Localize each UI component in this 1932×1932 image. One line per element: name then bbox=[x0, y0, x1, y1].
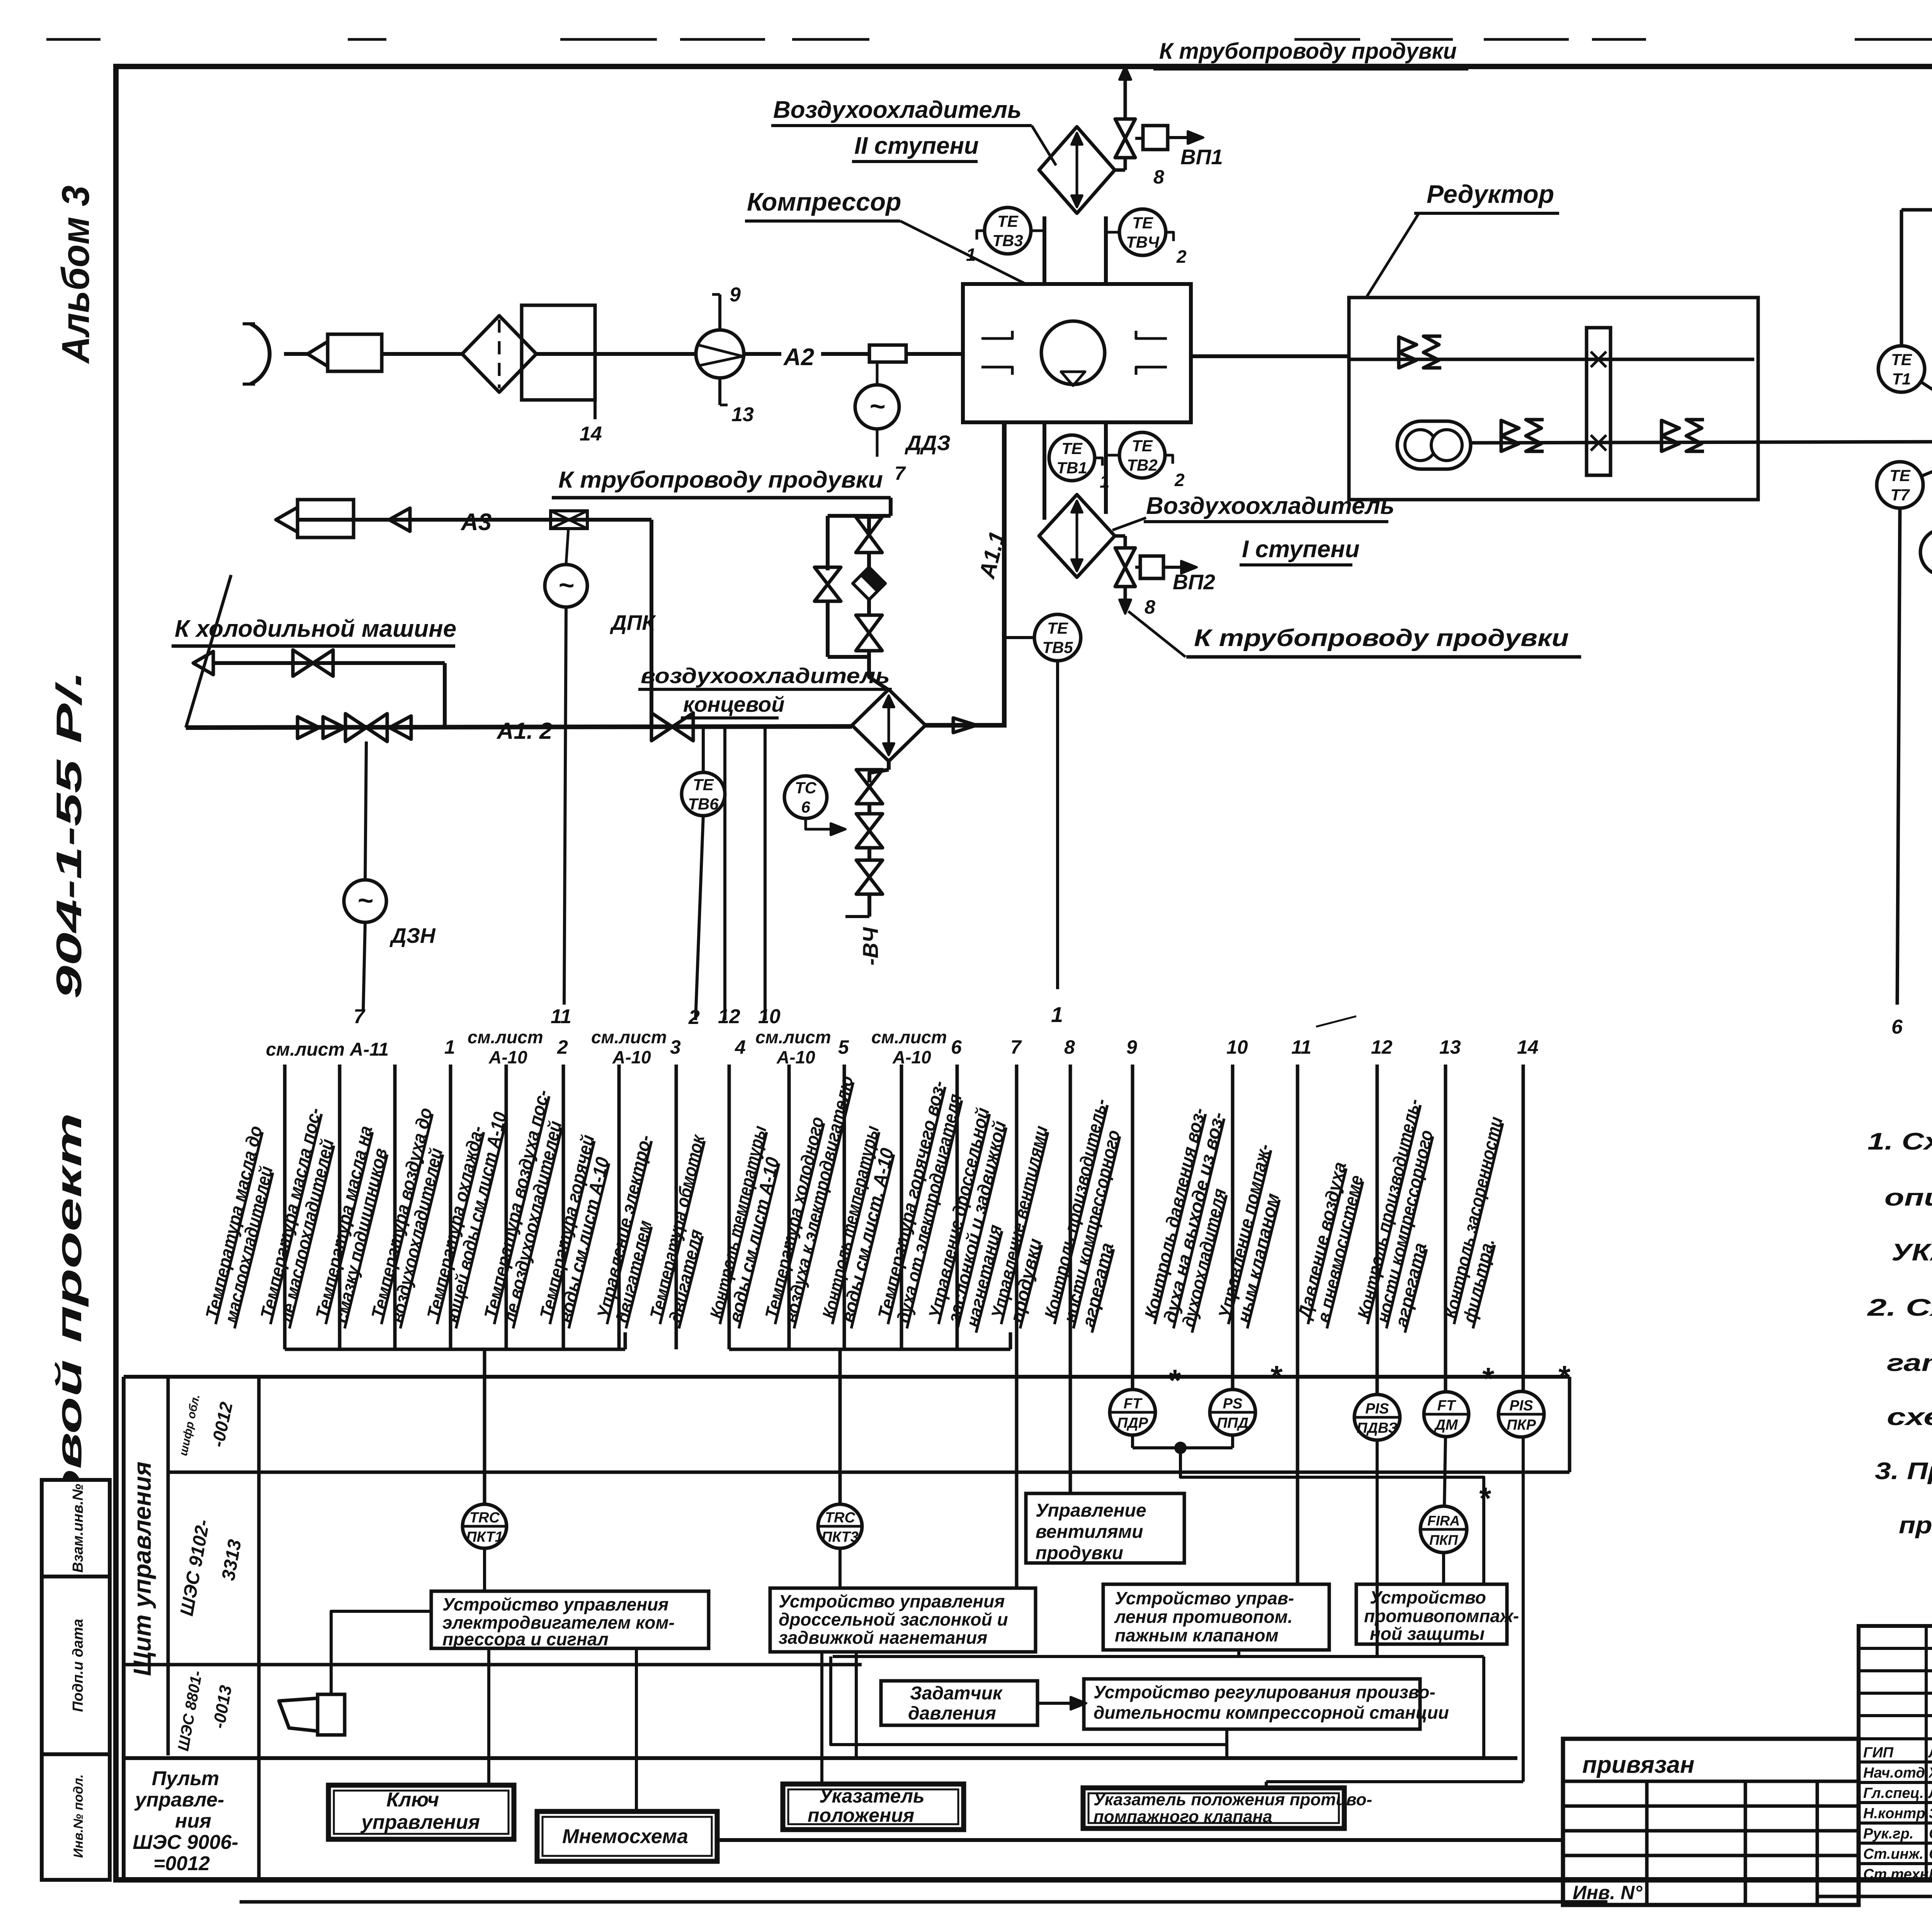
controller FIRA ПКП bbox=[1420, 1506, 1467, 1553]
svg-text:ПДР: ПДР bbox=[1117, 1415, 1148, 1431]
svg-text:13: 13 bbox=[731, 403, 754, 426]
svg-text:Гл.спец.: Гл.спец. bbox=[1863, 1785, 1924, 1801]
svg-text:ТЕ: ТЕ bbox=[1132, 214, 1154, 232]
signal line t2 bbox=[338, 1065, 342, 1349]
stub box3 to bus bbox=[1237, 1650, 1240, 1656]
svg-text:ДЗН: ДЗН bbox=[389, 923, 436, 947]
svg-text:5: 5 bbox=[838, 1036, 849, 1058]
signal line t3 bbox=[393, 1065, 397, 1349]
wire suction to funnel bbox=[284, 352, 308, 356]
svg-text:11: 11 bbox=[551, 1005, 571, 1028]
svg-text:см.лист: см.лист bbox=[591, 1027, 667, 1047]
svg-text:Компрессор: Компрессор bbox=[747, 187, 901, 216]
svg-text:ДМ: ДМ bbox=[1434, 1417, 1458, 1433]
svg-text:прессора и сигнал: прессора и сигнал bbox=[442, 1629, 609, 1649]
motor sensor bus top bbox=[1901, 208, 1932, 212]
svg-text:Устройство управления: Устройство управления bbox=[779, 1591, 1005, 1611]
svg-text:13: 13 bbox=[1439, 1036, 1461, 1058]
wire junction to protection box bbox=[1180, 1448, 1484, 1584]
svg-text:*: * bbox=[1478, 1481, 1492, 1515]
svg-text:1: 1 bbox=[1051, 1002, 1063, 1027]
filter small diamond bbox=[853, 567, 885, 600]
branch left pipe bbox=[826, 516, 830, 570]
svg-text:Альбом 3: Альбом 3 bbox=[54, 185, 97, 364]
open arrow on A1.2 bbox=[389, 716, 411, 739]
stub below ДДЗ bbox=[876, 429, 879, 457]
wire ПКТ3 to box2 bbox=[838, 1548, 842, 1588]
arrow from ВП2 box bbox=[1163, 566, 1194, 569]
box Указатель положения bbox=[783, 1784, 964, 1830]
svg-text:Христофоров: Христофоров bbox=[1928, 1765, 1932, 1781]
filter box 14 inlet bbox=[328, 334, 382, 371]
leader to cooler I bbox=[1112, 518, 1146, 530]
collector group 2 bbox=[729, 1348, 1010, 1351]
svg-text:10: 10 bbox=[758, 1005, 781, 1028]
svg-text:Т7: Т7 bbox=[1890, 486, 1910, 504]
svg-text:Взам.инв.№: Взам.инв.№ bbox=[70, 1484, 86, 1573]
duct compressor to cooler II bbox=[1043, 216, 1046, 284]
sensor TE ТВ6 bbox=[682, 772, 725, 816]
box Мнемосхема bbox=[537, 1811, 717, 1861]
valve drop 2 bbox=[856, 814, 883, 831]
blowdown branch top connector bbox=[828, 514, 891, 518]
wire line 10 drop bbox=[764, 726, 767, 1020]
attach table привязан bbox=[1563, 1739, 1859, 1905]
svg-text:концевой: концевой bbox=[683, 692, 784, 716]
svg-text:давления: давления bbox=[908, 1703, 996, 1724]
wire A1.1 to ТВ5 bbox=[1004, 636, 1034, 639]
table left edge bbox=[122, 1377, 126, 1880]
upper branch pipe bbox=[213, 661, 445, 665]
svg-text:8: 8 bbox=[1064, 1036, 1075, 1058]
svg-text:дроссельной заслонкой и: дроссельной заслонкой и bbox=[779, 1609, 1008, 1629]
air cleaner box bbox=[522, 305, 595, 400]
svg-text:пажным клапаном: пажным клапаном bbox=[1115, 1625, 1279, 1645]
oil pump oval bbox=[1397, 421, 1471, 469]
check valve pair on A1.2 bbox=[298, 717, 319, 738]
svg-text:Леонов: Леонов bbox=[1928, 1745, 1932, 1761]
valve drop 3 bbox=[856, 860, 883, 877]
valve drop 1 bbox=[856, 770, 883, 787]
gear pair upper bbox=[1399, 337, 1417, 352]
svg-text:А3: А3 bbox=[460, 509, 492, 536]
svg-text:см.лист: см.лист bbox=[755, 1027, 831, 1047]
svg-text:Рук.гр.: Рук.гр. bbox=[1863, 1826, 1913, 1842]
svg-text:Ст.инж.: Ст.инж. bbox=[1863, 1846, 1923, 1862]
svg-text:1: 1 bbox=[966, 245, 976, 265]
svg-text:ПКП: ПКП bbox=[1429, 1532, 1458, 1548]
table col line 435 bbox=[167, 1377, 170, 1755]
svg-text:Устройство управ-: Устройство управ- bbox=[1115, 1588, 1294, 1608]
wire ТВ6 drop line 2 bbox=[696, 816, 703, 1020]
reducer lower shaft bbox=[1471, 442, 1932, 443]
flow device 9/13 bbox=[696, 330, 744, 378]
svg-text:-ВЧ: -ВЧ bbox=[858, 927, 883, 966]
transmitter PIS ПКР bbox=[1498, 1391, 1544, 1437]
end air cooler diamond bbox=[852, 689, 925, 761]
svg-text:12: 12 bbox=[1371, 1036, 1393, 1058]
reducer box bbox=[1349, 298, 1758, 500]
wire motor to TE Т7 bbox=[1922, 453, 1932, 476]
svg-text:2: 2 bbox=[1176, 247, 1187, 267]
valve ВП1 riser bbox=[1115, 168, 1125, 172]
svg-text:противопомпаж-: противопомпаж- bbox=[1364, 1606, 1519, 1626]
air cooler I stage diamond bbox=[1039, 495, 1115, 577]
svg-text:Скляров: Скляров bbox=[1929, 1846, 1932, 1862]
svg-text:Инв. N°: Инв. N° bbox=[1573, 1882, 1643, 1903]
svg-text:ПДВЗ: ПДВЗ bbox=[1357, 1420, 1398, 1436]
svg-text:10: 10 bbox=[1226, 1036, 1248, 1058]
svg-text:Воздухоохладитель: Воздухоохладитель bbox=[773, 97, 1022, 123]
wire flow device to A2 bbox=[744, 352, 781, 356]
svg-text:FIRА: FIRА bbox=[1427, 1513, 1460, 1529]
transmitter FT ПДР bbox=[1110, 1389, 1155, 1435]
line to label 14 bbox=[594, 400, 597, 419]
svg-text:ТЕ: ТЕ bbox=[693, 776, 714, 794]
svg-text:Пульт: Пульт bbox=[152, 1767, 219, 1790]
collector group 1 bbox=[285, 1348, 625, 1351]
signal line t10 bbox=[787, 1065, 791, 1349]
svg-text:7: 7 bbox=[354, 1005, 366, 1028]
svg-text:ППД: ППД bbox=[1217, 1415, 1248, 1431]
svg-text:8: 8 bbox=[1145, 596, 1155, 618]
svg-text:К трубопроводу продувки: К трубопроводу продувки bbox=[558, 467, 883, 493]
svg-text:Лавинский: Лавинский bbox=[1928, 1785, 1932, 1801]
end cooler bottom drop bbox=[887, 761, 891, 770]
svg-text:Седов: Седов bbox=[1929, 1826, 1932, 1842]
svg-text:1: 1 bbox=[444, 1036, 455, 1058]
tap to ДПК bbox=[566, 529, 568, 564]
signal line t1 bbox=[283, 1065, 287, 1349]
transmitter PIS ПДВЗ bbox=[1354, 1395, 1400, 1440]
svg-text:ШЭС 9006-: ШЭС 9006- bbox=[133, 1831, 238, 1854]
svg-text:ПКР: ПКР bbox=[1507, 1417, 1536, 1433]
band right edge bbox=[1568, 1377, 1571, 1472]
svg-text:9: 9 bbox=[730, 284, 741, 306]
svg-text:задвижкой нагнетания: задвижкой нагнетания bbox=[779, 1628, 987, 1648]
svg-text:~: ~ bbox=[558, 570, 574, 600]
wire ПКТ1 to box1 bbox=[483, 1548, 486, 1591]
wire FIRA to box4 bbox=[1442, 1553, 1445, 1584]
bottom border smudge line bbox=[240, 1900, 1607, 1904]
svg-text:ния: ния bbox=[175, 1810, 211, 1832]
svg-text:ной защиты: ной защиты bbox=[1370, 1624, 1485, 1644]
leader to blowdown text 2 bbox=[1128, 611, 1185, 657]
signal line t12 bbox=[900, 1065, 903, 1349]
wire A1.1 to end cooler bbox=[925, 723, 1007, 728]
svg-text:Ключ: Ключ bbox=[386, 1789, 439, 1811]
svg-text:FТ: FТ bbox=[1124, 1396, 1143, 1412]
signal line t5 bbox=[505, 1065, 508, 1349]
svg-text:дительности компрессорной ст: дительности компрессорной станции bbox=[1094, 1702, 1449, 1723]
svg-text:Устройство: Устройство bbox=[1370, 1587, 1486, 1607]
wire ТВ6 to A1.2 bbox=[702, 726, 705, 772]
svg-text:РS: РS bbox=[1223, 1396, 1243, 1412]
sensor TE Т7 bbox=[1877, 462, 1923, 508]
drop with arrow under ВП2 bbox=[1124, 586, 1127, 604]
svg-text:ТЕ: ТЕ bbox=[997, 212, 1019, 230]
sensor ДПК bbox=[545, 565, 587, 607]
svg-text:4: 4 bbox=[735, 1036, 746, 1058]
valve ВП2 bbox=[1115, 548, 1135, 567]
svg-text:РIS: РIS bbox=[1365, 1401, 1389, 1417]
compressor left brackets bbox=[981, 331, 1012, 338]
row D line bbox=[124, 1756, 1517, 1760]
wire ПКР down to indicator bbox=[1522, 1437, 1525, 1782]
horn symbol bbox=[318, 1694, 345, 1735]
signature table bbox=[1859, 1626, 1932, 1880]
svg-text:I ступени: I ступени bbox=[1242, 536, 1360, 563]
box1 Устройство управления электродвигателем bbox=[431, 1591, 709, 1648]
arrow cone A3 left bbox=[276, 507, 298, 532]
svg-text:А1. 2: А1. 2 bbox=[496, 718, 552, 744]
svg-text:14: 14 bbox=[580, 423, 602, 445]
table col line 670 bbox=[257, 1377, 261, 1880]
svg-text:Золотарева: Золотарева bbox=[1929, 1806, 1932, 1822]
x mark lower bbox=[1591, 435, 1606, 451]
svg-text:Ст.техн.: Ст.техн. bbox=[1863, 1866, 1932, 1883]
top scan dashes bbox=[46, 38, 100, 41]
coupling rect bbox=[1587, 328, 1611, 475]
wire filter to flow device bbox=[536, 352, 696, 356]
damper valve on A3 bbox=[551, 511, 587, 529]
margin box Инв.№ подл. bbox=[42, 1754, 110, 1880]
svg-text:проекту.: проекту. bbox=[1899, 1512, 1932, 1539]
svg-text:гата N1, для компрессорных: гата N1, для компрессорных агрегатов N2-… bbox=[1887, 1350, 1932, 1376]
valve branch left bbox=[815, 567, 841, 584]
controller TRC ПКТ3 bbox=[818, 1504, 862, 1548]
svg-text:А2: А2 bbox=[783, 344, 814, 371]
svg-text:*: * bbox=[1168, 1363, 1181, 1398]
svg-text:904-1-55 Р/.: 904-1-55 Р/. bbox=[49, 670, 89, 999]
wire motor to TE Т1 bbox=[1921, 382, 1932, 422]
leader to cooler II bbox=[1032, 126, 1056, 165]
wire A1.2 bbox=[186, 726, 852, 728]
suction bell bbox=[250, 324, 270, 384]
svg-text:~: ~ bbox=[357, 885, 373, 915]
svg-text:Мнемосхема: Мнемосхема bbox=[562, 1825, 688, 1848]
wire line 12 drop bbox=[723, 726, 726, 1020]
box Указатель положения противопомпажного клапана bbox=[1083, 1788, 1344, 1828]
svg-text:Задатчик: Задатчик bbox=[910, 1683, 1003, 1704]
svg-text:ТЕ: ТЕ bbox=[1889, 466, 1911, 485]
svg-text:6: 6 bbox=[801, 798, 810, 816]
wire ТВ5 drop line 1 bbox=[1056, 661, 1059, 989]
wire box2 bottom to bus bbox=[855, 1652, 858, 1758]
wire branch to end cooler bbox=[869, 657, 889, 690]
svg-text:Т1: Т1 bbox=[1892, 370, 1911, 388]
valve branch right lower bbox=[856, 615, 882, 633]
sensor ДЗН bbox=[344, 880, 386, 922]
controller TRC ПКТ1 bbox=[463, 1504, 507, 1548]
svg-text:ТВ5: ТВ5 bbox=[1042, 638, 1073, 656]
wire box2 to indicator1 bbox=[820, 1652, 823, 1784]
svg-text:А-10: А-10 bbox=[488, 1047, 527, 1067]
svg-text:7: 7 bbox=[1010, 1036, 1022, 1058]
wire TE T7 down bbox=[1897, 508, 1900, 1005]
svg-text:-0012: -0012 bbox=[207, 1400, 236, 1449]
valve on A1.2 bbox=[345, 714, 366, 742]
svg-text:А-10: А-10 bbox=[776, 1047, 815, 1067]
svg-text:положения: положения bbox=[808, 1804, 914, 1826]
transmitter PS ППД bbox=[1210, 1389, 1255, 1435]
svg-text:вентилями: вентилями bbox=[1036, 1522, 1143, 1542]
wire collector2 to TRC ПКТ3 bbox=[838, 1349, 842, 1504]
wire TE T1 up bbox=[1900, 210, 1903, 346]
svg-text:ПКТ1: ПКТ1 bbox=[466, 1529, 503, 1545]
svg-text:ТRС: ТRС bbox=[469, 1510, 500, 1526]
wrap line under box6 bbox=[831, 1656, 1227, 1745]
tap A1.2 to ДЗН bbox=[365, 742, 366, 880]
svg-text:шифр обл.: шифр обл. bbox=[177, 1393, 202, 1457]
svg-text:6: 6 bbox=[951, 1036, 962, 1058]
leader to reducer box bbox=[1367, 213, 1419, 297]
svg-text:ШЭС 9102-: ШЭС 9102- bbox=[177, 1518, 214, 1617]
svg-text:2: 2 bbox=[688, 1006, 700, 1029]
wire to air filter bbox=[382, 352, 462, 356]
svg-text:~: ~ bbox=[869, 391, 885, 421]
svg-text:привязан: привязан bbox=[1582, 1752, 1694, 1778]
svg-text:Редуктор: Редуктор bbox=[1427, 180, 1554, 208]
svg-text:3: 3 bbox=[670, 1036, 681, 1058]
svg-text:ТВ1: ТВ1 bbox=[1056, 459, 1087, 477]
svg-text:ТЕ: ТЕ bbox=[1047, 619, 1069, 637]
wire A3 drop to A1.2 bbox=[650, 520, 653, 727]
svg-text:1: 1 bbox=[1100, 471, 1110, 492]
compressor box bbox=[963, 284, 1191, 422]
sensor ДДЗ bbox=[855, 385, 899, 429]
svg-text:ТВЧ: ТВЧ bbox=[1126, 233, 1160, 251]
svg-text:схема аналогична.: схема аналогична. bbox=[1887, 1404, 1932, 1430]
valve on A1.2 right bbox=[651, 713, 672, 741]
wire A3 bbox=[298, 518, 651, 522]
sensor TE ТВ2 bbox=[1119, 432, 1165, 478]
svg-text:продувки: продувки bbox=[1036, 1543, 1123, 1563]
scan artifact dash bbox=[1316, 1016, 1356, 1027]
svg-text:7: 7 bbox=[895, 463, 906, 484]
air filter diamond bbox=[462, 316, 536, 392]
wire compressor to reducer bbox=[1191, 354, 1349, 358]
svg-text:воздухоохладитель: воздухоохладитель bbox=[641, 663, 890, 688]
svg-text:8: 8 bbox=[1153, 166, 1164, 188]
leader to compressor box bbox=[900, 221, 1026, 284]
wire box1 to key box bbox=[487, 1648, 490, 1785]
svg-text:1. Схема выполнена на основ: 1. Схема выполнена на основании техничес… bbox=[1867, 1128, 1932, 1155]
wire blowdown header corner bbox=[889, 498, 893, 516]
band top line bbox=[124, 1375, 1570, 1379]
svg-text:помпажного клапана: помпажного клапана bbox=[1094, 1807, 1272, 1826]
wire to ВЧ bbox=[867, 894, 871, 917]
flow arrow on A1.1 branch bbox=[953, 718, 976, 733]
box Ключ управления bbox=[328, 1785, 514, 1839]
upper branch corner down bbox=[443, 663, 447, 728]
gear pair lower right bbox=[1662, 420, 1679, 436]
wire horn to box1 bbox=[331, 1611, 431, 1694]
sensor TE Т8 bbox=[1920, 529, 1932, 575]
svg-text:ПКТ3: ПКТ3 bbox=[821, 1529, 859, 1545]
svg-text:см.лист: см.лист bbox=[468, 1027, 543, 1047]
orifice fitting bbox=[869, 345, 906, 362]
svg-text:14: 14 bbox=[1517, 1036, 1539, 1058]
wire collector1 to TRC ПКТ1 bbox=[483, 1349, 486, 1504]
svg-text:=0012: =0012 bbox=[153, 1852, 210, 1875]
box Управление вентилями продувки bbox=[1026, 1493, 1184, 1563]
svg-text:Щит управления: Щит управления bbox=[128, 1461, 156, 1676]
arrow box5 to box6 bbox=[1037, 1702, 1084, 1705]
box3 Устройство управления противопомпажным клапаном bbox=[1103, 1584, 1329, 1650]
air cooler II stage diamond bbox=[1039, 127, 1115, 213]
svg-text:Воздухоохладитель: Воздухоохладитель bbox=[1146, 493, 1395, 519]
svg-text:управле-: управле- bbox=[134, 1789, 224, 1811]
bottom connector line bbox=[717, 1838, 1563, 1842]
svg-text:11: 11 bbox=[1291, 1036, 1311, 1058]
valve ВП2 riser bbox=[1115, 534, 1125, 538]
box A3 left bbox=[298, 500, 354, 537]
branch bottom connector bbox=[828, 655, 869, 659]
wire A1.1 drop bbox=[1002, 422, 1007, 727]
svg-text:ШЭС 8801-: ШЭС 8801- bbox=[175, 1669, 206, 1752]
svg-text:ления противопом.: ления противопом. bbox=[1114, 1607, 1293, 1627]
svg-text:ТВ3: ТВ3 bbox=[992, 231, 1023, 250]
gear pair lower left bbox=[1501, 420, 1519, 436]
upper branch arrow bbox=[193, 651, 213, 675]
svg-text:УКАС ОБХ 466. 057 рис. 21.: УКАС ОБХ 466. 057 рис. 21. bbox=[1891, 1239, 1932, 1266]
svg-text:Устройство управления: Устройство управления bbox=[442, 1594, 668, 1614]
box6 Устройство регулирования производительности bbox=[1084, 1679, 1420, 1729]
svg-text:Подп.и дата: Подп.и дата bbox=[70, 1619, 86, 1712]
box5 Задатчик давления bbox=[881, 1681, 1037, 1725]
reducer upper shaft bbox=[1349, 358, 1754, 361]
svg-text:*: * bbox=[1481, 1361, 1495, 1396]
svg-text:Указатель положения противо-: Указатель положения противо- bbox=[1094, 1790, 1372, 1809]
svg-text:см.лист: см.лист bbox=[871, 1027, 947, 1047]
funnel cone bbox=[308, 342, 328, 366]
svg-text:-0013: -0013 bbox=[209, 1684, 236, 1730]
svg-text:А-10: А-10 bbox=[612, 1047, 651, 1067]
box2 Устройство управления дроссельной заслонкой bbox=[770, 1588, 1036, 1652]
wire bus right down bbox=[1482, 1656, 1485, 1758]
stub up to 9 bbox=[718, 294, 721, 330]
svg-text:ТЕ: ТЕ bbox=[1061, 439, 1083, 457]
valve branch right upper bbox=[856, 517, 882, 535]
svg-text:ТВ6: ТВ6 bbox=[688, 795, 719, 813]
wire ДПК drop line 11 bbox=[564, 607, 566, 1005]
svg-text:6: 6 bbox=[1891, 1016, 1903, 1038]
valve ВП1 bbox=[1115, 119, 1135, 138]
junction FT PS bbox=[1131, 1435, 1134, 1448]
svg-text:ВП2: ВП2 bbox=[1173, 570, 1215, 594]
wire A2 to orifice bbox=[821, 352, 869, 356]
svg-text:II ступени: II ступени bbox=[854, 133, 979, 159]
svg-text:Управление: Управление bbox=[1036, 1500, 1146, 1521]
riser to blowdown header bbox=[1124, 76, 1127, 119]
open arrow on A3 bbox=[389, 508, 410, 531]
svg-text:3313: 3313 bbox=[218, 1538, 245, 1582]
svg-text:ВП1: ВП1 bbox=[1180, 145, 1223, 169]
duct compressor to cooler I bbox=[1043, 422, 1046, 520]
svg-text:*: * bbox=[1557, 1359, 1571, 1394]
sensor ТС 6 bbox=[784, 776, 827, 818]
compressor right brackets bbox=[1136, 331, 1167, 338]
svg-text:ТЕ: ТЕ bbox=[1891, 350, 1913, 369]
svg-text:Шует: Шует bbox=[1929, 1866, 1932, 1883]
svg-text:Инв.№ подл.: Инв.№ подл. bbox=[71, 1774, 86, 1858]
svg-text:Устройство регулирования про: Устройство регулирования произво- bbox=[1094, 1682, 1435, 1702]
svg-text:2. Схема выполнена для комп: 2. Схема выполнена для компрессорного аг… bbox=[1867, 1294, 1932, 1321]
compressor internal circle bbox=[1041, 321, 1105, 384]
svg-text:ДПК: ДПК bbox=[610, 611, 656, 634]
x mark upper bbox=[1591, 352, 1606, 367]
